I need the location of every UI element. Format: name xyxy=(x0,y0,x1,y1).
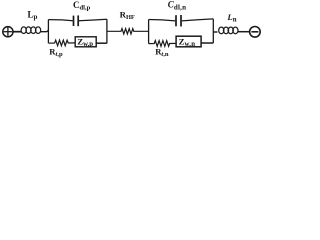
resistor R_t,p xyxy=(48,40,75,46)
inductor L_n xyxy=(219,27,238,34)
wire L_p to left block xyxy=(41,30,49,32)
Warburg impedance Z_w,n box xyxy=(176,36,201,48)
Warburg impedance Z_w,p box xyxy=(75,37,96,48)
inductor L_p xyxy=(21,27,41,34)
wire right block to L_n xyxy=(213,31,217,33)
wire: right block right edge (junction) xyxy=(212,19,214,43)
wire Z_w,p to right edge of left block xyxy=(96,42,107,44)
capacitor C_dl,n xyxy=(149,15,214,27)
wire: left block left edge (junction) xyxy=(47,20,49,44)
wire terminal+ to L_p xyxy=(13,31,22,33)
capacitor C_dl,p xyxy=(48,15,107,26)
positive terminal + xyxy=(3,27,13,37)
wire: right block left edge (junction) xyxy=(148,20,150,44)
wire Z_w,n to right edge of right block xyxy=(201,42,213,44)
wire: left block right edge (junction) xyxy=(106,19,108,43)
resistor R_HF xyxy=(107,29,149,34)
negative terminal - xyxy=(250,27,261,38)
resistor R_t,n xyxy=(149,41,177,47)
wire L_n to terminal- xyxy=(238,31,249,33)
